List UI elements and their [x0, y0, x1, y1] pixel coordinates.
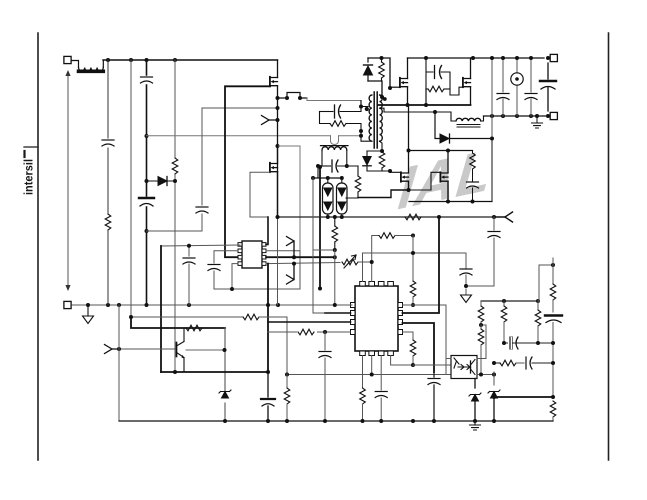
- MOSFET Q2: [400, 78, 408, 87]
- snubber resistor R24: [367, 151, 385, 171]
- wire U2 right pin2: [266, 251, 300, 289]
- wire x539 top: [539, 265, 553, 301]
- node: [473, 419, 477, 423]
- node: [276, 215, 280, 219]
- lamp/scope symbol: [511, 58, 523, 116]
- zener D5: [469, 379, 481, 422]
- wire thick column x161: [160, 246, 162, 372]
- wire U1 left pin2: [313, 178, 325, 313]
- wire thick column x320: [319, 167, 321, 289]
- node: [407, 188, 411, 192]
- node: [298, 96, 302, 100]
- wire thick row y328: [131, 317, 225, 328]
- wire column x146 (bulk): [146, 60, 148, 305]
- wire Q6 drain column: [447, 151, 449, 173]
- node: [380, 56, 384, 60]
- capacitor C19: [545, 316, 562, 398]
- node: [285, 96, 289, 100]
- output inductor L2: [451, 116, 484, 127]
- wire U2 right pin4 row: [266, 263, 340, 264]
- wire U1 right pin4: [403, 332, 414, 340]
- wire secondary top lead: [380, 95, 382, 97]
- capacitor C4: [196, 207, 208, 213]
- node: [380, 95, 384, 99]
- wire U1 left pin1 rail: [351, 304, 353, 306]
- resistor R10 row y235: [372, 233, 413, 262]
- node: [388, 169, 392, 173]
- resistor R2: [172, 158, 178, 174]
- wire U2 pin4: [232, 264, 300, 289]
- node: [546, 114, 550, 118]
- wire row y374: [287, 374, 451, 376]
- node: [490, 137, 494, 141]
- wire Q6 gate: [409, 172, 441, 190]
- node: [187, 244, 191, 248]
- wire x413: [412, 236, 414, 271]
- terminal T4 output -: [550, 112, 557, 119]
- wire snubber top: [368, 58, 390, 88]
- node: [502, 341, 506, 345]
- resistor R21 col553: [550, 258, 556, 312]
- probe arrow A3: [287, 264, 295, 284]
- wire long mid rail y136: [147, 135, 362, 137]
- wire output top rail: [484, 115, 550, 117]
- wire Q3 drain: [470, 58, 472, 79]
- node: [145, 303, 149, 307]
- capacitor C1: [102, 140, 114, 146]
- node: [359, 105, 363, 109]
- node: [187, 303, 191, 307]
- node: [471, 200, 475, 204]
- node: [276, 303, 280, 307]
- node on bus: [173, 58, 177, 62]
- wire opto right bottom: [477, 374, 494, 376]
- node: [546, 56, 550, 60]
- node: [276, 106, 280, 110]
- wire Q4 gate loop: [250, 172, 270, 217]
- node: [406, 103, 410, 107]
- node: [502, 299, 506, 303]
- freewheel diode D2: [435, 112, 492, 143]
- node: [479, 373, 483, 377]
- node: [515, 56, 519, 60]
- node: [173, 370, 177, 374]
- node: [359, 134, 363, 138]
- wire y150: [409, 150, 473, 152]
- wire thick rail y105: [378, 104, 471, 106]
- wire Q3 source: [470, 87, 472, 105]
- node: [333, 303, 337, 307]
- wire Q2 gate: [390, 86, 400, 88]
- node: [145, 134, 149, 138]
- node: [145, 229, 149, 233]
- node: [411, 363, 415, 367]
- node: [529, 114, 533, 118]
- wire primary top lead: [361, 101, 368, 107]
- wire input sense line with arrows: [65, 70, 70, 291]
- wire y146: [278, 146, 301, 289]
- capacitor C20: [508, 337, 518, 349]
- node: [433, 110, 437, 114]
- node: [536, 299, 540, 303]
- resistor R15: [284, 374, 290, 421]
- terminal T3 output +: [550, 54, 557, 61]
- resistor R23: [550, 401, 556, 421]
- wire Q4 drain-source column: [277, 146, 279, 217]
- output cap C10: [540, 63, 556, 111]
- node: [490, 114, 494, 118]
- ground rail y421: [119, 420, 553, 422]
- wire column x278 lower: [277, 217, 279, 305]
- coupling cap C12: [316, 160, 358, 178]
- node: [471, 56, 475, 60]
- node: [536, 341, 540, 345]
- wire U2 pin1 left row: [161, 245, 240, 246]
- node: [424, 103, 428, 107]
- node: [407, 149, 411, 153]
- wire secondary top bus: [408, 57, 545, 59]
- wire Q2 source: [407, 87, 409, 105]
- wire U2 right pin1 up: [266, 217, 268, 244]
- node: [276, 96, 280, 100]
- node: [340, 215, 344, 219]
- node: [230, 287, 234, 291]
- wire Q5 gate: [390, 171, 401, 172]
- node: [551, 395, 555, 399]
- snubber resistor R3: [379, 57, 385, 81]
- resistor R22: [500, 360, 516, 366]
- wire opto right top: [477, 325, 486, 359]
- node: [501, 114, 505, 118]
- node: [117, 347, 121, 351]
- wire row317 cont: [259, 317, 287, 375]
- wire U1 bottom pin1: [360, 356, 366, 422]
- resistor R14: [297, 326, 317, 337]
- wire U1 bottom pin4: [391, 356, 413, 366]
- wire column x108: [107, 60, 109, 305]
- BJT Q7: [119, 328, 224, 372]
- snubber diode D3: [364, 58, 373, 81]
- wire column x131: [130, 60, 132, 317]
- wire U1 top pin1 riser: [363, 253, 467, 282]
- wire gray to transformer top: [307, 98, 361, 101]
- resistor R1: [105, 214, 111, 230]
- resistor R9 on y217: [405, 214, 421, 220]
- wire U2 pin2 loop with cap: [214, 251, 238, 289]
- node: [276, 118, 280, 122]
- wire column x325: [324, 332, 326, 421]
- node: [292, 255, 296, 259]
- node: [492, 373, 496, 377]
- wire y250: [313, 249, 335, 251]
- node: [223, 419, 227, 423]
- node: [117, 303, 121, 307]
- resistor R16: [410, 340, 416, 365]
- SR MOSFET Q6: [440, 172, 448, 181]
- wire y343: [504, 342, 553, 344]
- node: [333, 215, 337, 219]
- node: [379, 419, 383, 423]
- wire U1 left pin row317: [131, 316, 243, 318]
- node: [529, 56, 533, 60]
- wire U1 right pin3 thick: [403, 323, 435, 372]
- wire row y332: [268, 331, 351, 333]
- capacitor C11: [467, 182, 479, 188]
- node: [318, 165, 322, 169]
- soft start cap C15: [460, 253, 472, 303]
- node: [535, 114, 539, 118]
- node: [370, 373, 374, 377]
- node: [86, 303, 90, 307]
- wire Q6 source: [447, 181, 449, 201]
- node: [106, 303, 110, 307]
- gate resistor R4: [426, 86, 450, 105]
- node: [266, 419, 270, 423]
- dual diode DP2: [337, 178, 348, 217]
- node: [311, 176, 315, 180]
- RC damper R5: [470, 140, 492, 202]
- node: [129, 315, 133, 319]
- resistor R13: [186, 325, 202, 331]
- capacitor C6: [208, 265, 220, 271]
- cap C17: [261, 372, 275, 421]
- resistor R19: [501, 301, 507, 343]
- wire y108 to Q1 source: [202, 107, 278, 109]
- resistor R11: [410, 270, 416, 305]
- node: [318, 287, 322, 291]
- node: [323, 419, 327, 423]
- terminal T2 (input -): [64, 301, 71, 308]
- gate coupling cap C7: [426, 58, 463, 95]
- wire top input bus: [103, 59, 278, 61]
- node: [380, 149, 384, 153]
- capacitor C16: [319, 352, 331, 358]
- wire y365 to opto: [413, 364, 452, 366]
- inductor L1 input choke: [72, 61, 104, 72]
- node: [388, 86, 392, 90]
- resistor R17: [478, 301, 484, 325]
- current sense jumper bump: [278, 93, 308, 99]
- node: [490, 56, 494, 60]
- wire opto left top: [446, 358, 451, 360]
- ground G3: [470, 421, 481, 430]
- wire emitter thick: [161, 371, 268, 373]
- node: [323, 330, 327, 334]
- node: [551, 263, 555, 267]
- node: [446, 149, 450, 153]
- wire U1 left pin2 thick: [325, 312, 351, 314]
- resistor R20: [535, 301, 541, 343]
- wire U1 bottom pin2: [371, 356, 373, 375]
- node: [492, 215, 496, 219]
- wire Q5 source: [358, 181, 409, 197]
- wire hop loop: [331, 136, 339, 145]
- zener D6: [488, 372, 500, 421]
- SR MOSFET Q5: [401, 172, 409, 181]
- capacitor C5: [183, 258, 195, 264]
- node: [266, 370, 270, 374]
- wire column x490: [491, 58, 493, 140]
- capacitor C2: [141, 77, 153, 83]
- wire Q1 drain-source column: [277, 60, 279, 217]
- wire column x175: [174, 60, 176, 372]
- wire U2 right pin3 thick row: [266, 256, 335, 258]
- node: [276, 144, 280, 148]
- wire secondary y112 to L2: [380, 108, 451, 118]
- diode D1: [147, 177, 176, 186]
- node: [492, 395, 496, 399]
- probe arrow A2: [287, 237, 295, 258]
- capacitor C14: [466, 217, 500, 286]
- wire column x503: [502, 58, 504, 116]
- node: [340, 176, 344, 180]
- node: [515, 114, 519, 118]
- capacitor C9: [525, 58, 537, 116]
- node: [411, 251, 415, 255]
- wire column x189: [188, 246, 190, 305]
- node: [551, 341, 555, 345]
- wire secondary bottom lead: [380, 142, 382, 152]
- node: [551, 361, 555, 365]
- wire U1 right pin2 thick: [403, 217, 440, 313]
- node: [326, 176, 330, 180]
- wire column x202: [201, 108, 203, 231]
- node: [292, 262, 296, 266]
- node: [437, 215, 441, 219]
- ground G2 output: [532, 116, 543, 128]
- node: [411, 234, 415, 238]
- node: [411, 419, 415, 423]
- capacitor C8: [497, 94, 509, 100]
- wire Q2 drain: [407, 58, 409, 79]
- IC U2 body: [238, 241, 266, 268]
- node: [266, 303, 270, 307]
- node: [333, 255, 337, 259]
- node: [145, 179, 149, 183]
- MOSFET Q4: [270, 163, 278, 172]
- wire y201: [409, 201, 492, 203]
- wire column x225 lower: [224, 328, 226, 421]
- node: [173, 179, 177, 183]
- page right border rule: [608, 33, 610, 460]
- node: [359, 129, 363, 133]
- MOSFET Q3: [463, 78, 471, 87]
- capacitor C18: [428, 372, 440, 421]
- node on bus: [145, 58, 149, 62]
- snubber cap C13: [320, 101, 362, 119]
- node on bus: [106, 58, 110, 62]
- IC U1 body: [351, 282, 403, 356]
- wire y231: [147, 230, 203, 232]
- transformer T1: [365, 92, 387, 148]
- probe arrow A1: [262, 116, 278, 125]
- wire snubber bottom: [368, 81, 382, 97]
- node: [492, 361, 496, 365]
- wire primary bottom lead: [361, 131, 372, 141]
- optocoupler U3: [451, 356, 477, 379]
- wire U1 top pin2 riser: [371, 262, 373, 282]
- wire thick y397: [494, 396, 553, 398]
- node: [432, 419, 436, 423]
- node: [361, 419, 365, 423]
- wire diode tops: [313, 177, 342, 179]
- node: [285, 373, 289, 377]
- node: [479, 323, 483, 327]
- wire y217 long: [278, 216, 495, 218]
- variable resistor RV1: [342, 255, 372, 268]
- MOSFET Q1: [270, 77, 278, 86]
- node: [446, 200, 450, 204]
- resistor R18: [478, 325, 484, 375]
- snubber resistor R6: [320, 112, 362, 132]
- probe arrow A5: [105, 345, 120, 354]
- probe arrow A4: [494, 212, 513, 222]
- wire bottom input rail: [72, 304, 352, 306]
- intersil logo: [22, 147, 39, 195]
- node: [333, 248, 337, 252]
- node: [370, 260, 374, 264]
- capacitor C3 bulk: [139, 198, 154, 206]
- node: [223, 348, 227, 352]
- wire Q1 gate thick: [225, 86, 270, 257]
- ground G1 input: [83, 305, 94, 324]
- node: [326, 215, 330, 219]
- terminal T1 (input +): [64, 56, 71, 63]
- wire thick column x269: [267, 264, 269, 372]
- svg-text:intersil: intersil: [22, 159, 36, 195]
- wire row y322 to pin: [268, 321, 351, 323]
- zener D4: [219, 390, 231, 398]
- capacitor C21: [516, 357, 553, 369]
- wire Q5 drain column: [408, 105, 410, 173]
- wire row y301: [481, 300, 538, 302]
- node: [285, 419, 289, 423]
- wire U1 right pin1: [403, 305, 447, 375]
- wire column x334: [334, 250, 336, 305]
- node: [492, 419, 496, 423]
- wire column x119: [118, 305, 120, 421]
- page left border rule: [37, 33, 39, 460]
- resistor R7: [332, 217, 338, 250]
- node: [411, 303, 415, 307]
- aux winding T2: [321, 146, 349, 166]
- node: [424, 56, 428, 60]
- node on bus: [129, 58, 133, 62]
- node: [501, 56, 505, 60]
- resistor R12: [243, 314, 259, 320]
- resistor R8 sense: [346, 166, 361, 198]
- wire snubber2 bottom: [367, 170, 390, 172]
- snubber diode D7: [363, 151, 371, 171]
- dual diode DP1: [323, 178, 334, 217]
- wire U1 bottom pin3 cap: [375, 356, 387, 422]
- wire y363: [494, 362, 500, 364]
